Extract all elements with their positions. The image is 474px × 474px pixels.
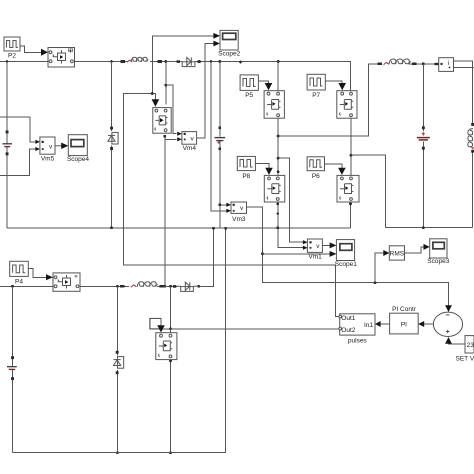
wire: Out1 pulse long route to mid MOSFET gate and Scope2 input1 <box>124 94 340 317</box>
mosfet Q3 leg B upper <box>337 91 357 119</box>
arrow into Vm5 input1 <box>35 140 40 144</box>
wire: top right circuit red lead and bus to current block <box>389 63 436 65</box>
wire: leg B mid tap to right rail <box>351 155 385 228</box>
wire: Vm1 output to Scope1 input1 <box>322 244 330 246</box>
svg-text:23: 23 <box>467 342 474 349</box>
wire: ground capacitor branch upper <box>422 64 424 131</box>
node: junction source line on lower bus <box>163 285 166 288</box>
pulse generator P4 <box>10 261 29 285</box>
wire: sum top input from feedback line arrowed down <box>448 283 450 306</box>
scope Scope2 <box>218 30 240 57</box>
inductor L1 red series resistor lead <box>127 60 132 62</box>
mosfet Q2 leg A lower <box>264 175 285 202</box>
wire: battery B1 bottom down to negative rail corner <box>6 147 8 228</box>
svg-text:Scope2: Scope2 <box>218 51 240 58</box>
wire: Scope2 input1 branch from gate node <box>152 36 213 94</box>
wire: leg A source down through rail to Vm1 input2 <box>278 202 304 248</box>
arrow into Vm5 input2 <box>35 147 40 151</box>
node: small dot on leg A source wire <box>277 212 279 214</box>
svg-text:Scope4: Scope4 <box>67 156 89 163</box>
wire: gate feed P5 to leg A upper MOSFET <box>258 81 268 84</box>
svg-text:P5: P5 <box>245 92 253 99</box>
svg-text:RMS: RMS <box>390 251 405 258</box>
wire: capacitor C1 branch upper <box>219 62 221 137</box>
arrow gate P4 into U3 <box>46 274 53 280</box>
wire: leg B mid vertical between MOSFETs <box>350 118 352 175</box>
arrow sum output into PI <box>418 321 424 327</box>
node: square loop on Out2 gate wire <box>150 318 161 328</box>
wire: capacitor C1 branch lower to rail <box>219 141 221 228</box>
wire: lower bus inductor to diode <box>157 285 178 287</box>
subsystem pulses <box>339 314 375 345</box>
wire: top DC bus inductor to diode <box>150 61 178 63</box>
svg-text:Vm3: Vm3 <box>232 216 246 223</box>
arrow into Vm1 input2 <box>303 246 308 250</box>
thyristor T1 with snubber <box>108 127 118 150</box>
pulse generator P5 <box>240 75 258 99</box>
pulse generator P8 <box>237 156 255 179</box>
voltage measurement Vm5 <box>40 137 55 162</box>
diode D2 <box>173 282 199 291</box>
node: junction lower bus at battery B2 <box>11 285 14 288</box>
node: junction lower bus after diode D2 <box>197 285 200 288</box>
wire: battery B1 branch from bus down to battery top <box>6 62 8 144</box>
arrow gate P8 into Q2 <box>265 168 273 175</box>
wire: gate feed P7 to leg B upper MOSFET <box>325 81 342 84</box>
wire: sub MOSFET source to bottom bus <box>170 360 172 453</box>
arrow gate P6 into Q4 <box>338 168 346 175</box>
arrow gate P7 into Q3 <box>338 83 346 90</box>
node: junction top bus at capacitor branch <box>218 60 221 63</box>
node: junction lower bus at sub MOSFET drain <box>169 285 172 288</box>
wire: lower bus left segment to P4 MOSFET <box>0 285 53 287</box>
node: junction top bus at mid MOSFET drain <box>164 60 167 63</box>
node: junction top bus at thyristor branch <box>110 60 113 63</box>
node: junction leg A mid Vm1 tap <box>277 157 280 160</box>
mosfet U4 sub vertical block <box>156 333 177 360</box>
wire: load branch lower to right rail <box>472 150 474 228</box>
wire: Vm4 input1 feed around block <box>166 85 177 134</box>
wire: top DC bus diode to leg corner, turns down to P7 MOSFET drain <box>199 62 351 91</box>
capacitor C1 <box>215 138 226 144</box>
node: terminal dot right of inductor L2 <box>160 285 165 288</box>
wire: current block top output to load branch <box>454 61 473 124</box>
svg-text:P2: P2 <box>8 53 16 60</box>
wire: mid MOSFET drain vertical from bus <box>165 62 167 105</box>
wire: RMS input from feedback line <box>375 253 384 283</box>
voltage measurement Vm1 <box>307 239 322 261</box>
arrow into sum top minus input <box>445 305 452 312</box>
node: port dot leg A at P8 MOSFET drain <box>277 170 280 173</box>
inductor L1 coil <box>131 57 148 61</box>
voltage measurement Vm4 <box>182 132 197 153</box>
diode D1 <box>177 57 201 66</box>
node: terminal dots capacitor branch <box>218 127 221 151</box>
node: junction leg A mid filter tap <box>277 135 280 138</box>
svg-text:Vm5: Vm5 <box>41 155 55 162</box>
node: junction thyristor branch on rail <box>110 226 113 229</box>
pulse generator P7 <box>307 74 325 99</box>
node: junction top bus at battery <box>6 60 9 63</box>
node: junction bottom bus riser on rail <box>224 227 227 230</box>
mosfet U1 top chopper block <box>48 48 75 68</box>
node: terminal dot right of inductor L1 <box>158 60 163 63</box>
wire: gate feed P6 to leg B lower MOSFET <box>325 164 342 169</box>
node: junction top bus at Vm3 tap <box>210 60 213 63</box>
node: junction top bus at diode D1 output <box>198 60 201 63</box>
arrow into RMS <box>383 250 389 256</box>
svg-text:Scope3: Scope3 <box>427 258 449 265</box>
wire: Vm3 input2 tap from bus <box>211 62 227 211</box>
arrow into sum bottom plus input <box>445 337 452 344</box>
scope Scope1 <box>335 240 357 268</box>
arrow Vm5 output into Scope4 <box>55 143 68 149</box>
arrow into Vm3 input1 <box>226 203 231 207</box>
wire: RMS output to Scope3 <box>405 247 425 253</box>
svg-text:In1: In1 <box>364 322 373 329</box>
svg-text:PI Contr: PI Contr <box>392 306 417 313</box>
svg-text:pulses: pulses <box>348 337 368 344</box>
arrow gate Out1 into U2 <box>152 99 160 107</box>
inductor L2 coil <box>137 282 157 287</box>
svg-text:SET Va: SET Va <box>456 355 474 362</box>
node: junction mid MOSFET source node <box>163 135 166 138</box>
pulse generator P6 <box>307 157 324 180</box>
inductor L2 red series resistor lead <box>131 285 137 287</box>
node: terminal dot left of inductor L1 <box>121 60 126 63</box>
node: junction ground capacitor on right rail <box>422 226 425 229</box>
mosfet Q1 leg A upper <box>264 91 284 119</box>
node: junction leg B mid output tap <box>350 154 353 157</box>
arrow into Vm1 input1 <box>303 240 308 244</box>
thyristor T2 with snubber <box>114 351 124 374</box>
node: junction Vm4 tap on drain vertical <box>164 84 167 87</box>
node: junction lower bus at thyristor T2 <box>116 285 119 288</box>
wire: thyristor T1 branch lower segment to rail <box>111 146 113 228</box>
node: terminal dot after top right inductor <box>412 63 417 66</box>
wire: Vm5 upper tap from battery line <box>0 117 36 142</box>
node: junction sub MOSFET source on bottom bus <box>169 451 172 454</box>
arrow gate P5 into Q1 <box>265 83 273 90</box>
inductor L3 red series resistor lead <box>384 62 390 64</box>
svg-text:Out2: Out2 <box>341 327 355 334</box>
battery B1 <box>3 131 13 156</box>
wire: SET V reference into sum plus input <box>449 342 466 345</box>
node: junction feedback line RMS tap <box>374 281 377 284</box>
wire: ground capacitor branch lower to right rail <box>422 142 424 228</box>
current measurement block I1 <box>435 58 454 72</box>
wire: mid MOSFET source down to lower bus <box>164 135 166 286</box>
wire: negative rail left section <box>7 227 351 229</box>
voltage measurement Vm3 <box>231 202 247 223</box>
wire: Out2 pulse wire to sub MOSFET gate loop <box>150 318 340 328</box>
wire: battery B2 branch from lower bus down <box>12 286 14 366</box>
node: junction top right bus at ground capacitor <box>422 62 425 65</box>
node: junction dot on bus near P5 <box>239 61 242 64</box>
wire: Vm3 output route to feedback line <box>247 207 449 306</box>
node: junction lower circuit connector on rail <box>212 227 215 230</box>
wire: output filter feed from leg A mid to top right circuit <box>278 64 379 136</box>
wire: thyristor T2 branch upper <box>116 286 118 355</box>
arrow gate Out2 into U4 <box>157 325 165 332</box>
load branch RL at right edge <box>468 123 474 153</box>
inductor L3 coil <box>389 59 411 64</box>
arrow into Scope3 <box>424 244 430 250</box>
wire: PI output to pulses In1 <box>381 323 390 325</box>
wire: Vm1 input1 from leg A mid tap <box>278 158 303 242</box>
mosfet U2 mid vertical block <box>153 108 171 134</box>
node: junction Out2 gate wire crossing dot <box>169 327 172 330</box>
wire: bottom return bus <box>13 228 226 452</box>
arrow into Vm3 input2 <box>226 209 231 213</box>
wire: sub MOSFET drain vertical from lower bus <box>170 286 172 332</box>
mosfet Q4 leg B lower <box>337 175 359 202</box>
node: junction gate node mid MOSFET <box>151 92 154 95</box>
node: junction Vm3 output branch to Scope1 <box>261 253 264 256</box>
sum junction <box>433 312 462 336</box>
wire: gate feed P4 to MOSFET <box>28 269 46 278</box>
capacitor C2 output filter to ground <box>417 126 430 149</box>
scope Scope3 <box>427 239 449 265</box>
wire: branch Vm3 output to Scope1 input2 <box>263 253 331 255</box>
node: junction top bus at leg A drain <box>277 60 280 63</box>
arrow into Vm4 input2 <box>177 137 182 141</box>
arrow into Scope2 input1 <box>213 33 220 39</box>
node: port dot under sub MOSFET <box>169 360 172 363</box>
node: junction thyristor T2 on bottom bus <box>116 451 119 454</box>
node: terminal dot left of inductor L2 <box>120 285 125 288</box>
label m port mosfet U1 <box>68 47 73 54</box>
wire: Vm5 lower tap from battery line <box>0 149 36 176</box>
arrow gate P2 into U1 <box>41 49 48 56</box>
block RMS <box>389 246 404 260</box>
wire: sum output to PI controller <box>424 323 434 325</box>
wire: gate feed P8 to leg A lower MOSFET <box>255 164 269 169</box>
svg-text:Vm4: Vm4 <box>183 145 197 152</box>
mosfet U3 lower chopper block <box>53 273 80 291</box>
arrow into Scope1 input2 <box>330 251 337 257</box>
wire: thyristor T1 branch upper segment <box>111 62 113 132</box>
wire: lower bus P4 MOSFET to inductor <box>80 285 129 287</box>
wire: leg B source down to left rail <box>350 202 352 228</box>
wire: leg A drain vertical from bus <box>277 62 279 91</box>
svg-text:PI: PI <box>401 321 407 328</box>
node: junction leg A source on rail <box>276 226 279 229</box>
wire: top DC bus MOSFET1 to inductor <box>75 61 129 63</box>
wire: leg A mid vertical between MOSFETs <box>277 118 279 175</box>
wire: lower bus diode to corner up to rail <box>199 228 214 286</box>
pulse generator P2 <box>4 37 20 60</box>
wire: thyristor T2 branch lower to bottom bus <box>116 370 118 453</box>
wire: Vm4 output up to Scope2 input2 <box>197 44 214 138</box>
svg-text:P4: P4 <box>15 278 23 285</box>
wire: current block bottom output clipped at edge <box>454 67 474 69</box>
arrow into Vm4 input1 <box>177 132 182 136</box>
svg-text:i: i <box>448 60 449 67</box>
wire: battery B2 bottom to bottom bus <box>12 370 14 453</box>
svg-text:Scope1: Scope1 <box>335 261 357 268</box>
scope Scope4 <box>67 135 89 164</box>
svg-text:Out1: Out1 <box>341 315 355 322</box>
svg-text:P7: P7 <box>312 92 320 99</box>
wire: top DC bus left segment to MOSFET1 <box>0 61 48 63</box>
wire: Vm3 input1 tap from capacitor branch <box>220 204 227 206</box>
node: port dot under P6 MOSFET <box>349 203 352 206</box>
svg-text:P8: P8 <box>242 173 250 180</box>
arrow PI output into pulses In1 <box>375 321 381 327</box>
svg-text:m: m <box>68 47 73 54</box>
node: port dot under P8 MOSFET <box>276 203 279 206</box>
node: junction cap branch Vm3 tap <box>218 203 221 206</box>
battery B2 <box>7 356 17 380</box>
wire: gate feed P2 to MOSFET1 <box>20 46 41 52</box>
node: terminal dot before top right inductor <box>378 63 383 66</box>
svg-text:P6: P6 <box>312 173 320 180</box>
wire: Vm4 input2 feed from source node <box>165 138 177 140</box>
svg-text:Vm1: Vm1 <box>308 254 322 261</box>
block SET V constant <box>456 336 474 363</box>
arrow into Scope1 input1 <box>330 242 337 248</box>
arrow into Scope2 input2 <box>213 41 220 47</box>
wire: right rail segment <box>385 227 472 229</box>
block PI controller <box>390 306 419 334</box>
